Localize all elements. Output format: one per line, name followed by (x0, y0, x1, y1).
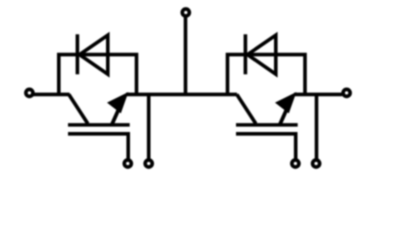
terminal 2 (emitter E2 of right IGBT T2) (343, 89, 350, 96)
terminal: auxiliary emitter E2 (313, 160, 320, 167)
diode D1 loop wiring (cathode-to-collector, anode-to-emitter rectangle) (59, 55, 137, 96)
wire: auxiliary emitter lead of T2 (315, 94, 319, 159)
IGBT T1 gate bar and gate lead down (68, 134, 128, 160)
diode D1 cathode bar (76, 34, 80, 74)
wire: auxiliary emitter lead of T1 (147, 94, 151, 159)
wire: emitter bus from T1 emitter to T2 collector node (126, 93, 237, 97)
IGBT T2 gate bar and gate lead down (236, 134, 296, 160)
wire: terminal 1 to T1 collector node (33, 93, 69, 97)
IGBT T1 channel bar (68, 123, 130, 127)
IGBT T1 emitter lead shaft (112, 108, 120, 125)
terminal: gate G1 (124, 160, 131, 167)
diode D2 cathode bar (244, 34, 248, 74)
IGBT T2 emitter lead shaft (280, 108, 288, 125)
IGBT T2 collector diagonal lead (237, 94, 256, 123)
terminal 1 (collector C1 of left IGBT T1) (26, 89, 33, 96)
IGBT T1 emitter arrow head (108, 93, 127, 112)
IGBT T2 channel bar (236, 123, 298, 127)
IGBT T1 collector diagonal lead (69, 94, 88, 123)
terminal: auxiliary emitter E1 (145, 160, 152, 167)
wire: T2 emitter to terminal 2 (294, 93, 342, 97)
diode D1 anode triangle (pointing left) (80, 35, 108, 74)
wire: AC output stem (184, 17, 188, 95)
terminal: gate G2 (292, 160, 299, 167)
IGBT T2 emitter arrow head (276, 93, 295, 112)
diode D2 loop wiring (cathode-to-collector, anode-to-emitter rectangle) (228, 55, 306, 96)
terminal 3 (AC output, top) (182, 9, 189, 16)
diode D2 anode triangle (pointing left) (248, 35, 276, 74)
